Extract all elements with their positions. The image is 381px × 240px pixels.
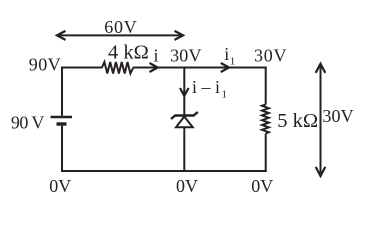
svg-text:30V: 30V bbox=[254, 45, 287, 65]
wire left lower segment bbox=[61, 126, 63, 172]
svg-text:1: 1 bbox=[230, 56, 236, 68]
zener diode D1 triangle (anode, pointing up) bbox=[176, 117, 193, 128]
svg-text:60V: 60V bbox=[104, 17, 136, 37]
svg-text:i: i bbox=[224, 44, 229, 64]
wire middle upper segment (30V node to zener) bbox=[183, 67, 185, 116]
current arrow i1 (arrowhead on top wire) bbox=[221, 63, 229, 72]
current arrow i (arrowhead on top wire) bbox=[150, 63, 158, 72]
wire left upper segment bbox=[61, 67, 63, 116]
svg-text:30V: 30V bbox=[170, 45, 201, 65]
svg-text:i – i: i – i bbox=[192, 77, 220, 97]
svg-text:1: 1 bbox=[222, 89, 228, 101]
svg-text:0V: 0V bbox=[49, 176, 71, 196]
svg-text:90V: 90V bbox=[29, 55, 61, 75]
resistor R1 4 kOhm (horizontal zigzag) bbox=[102, 62, 133, 74]
wire right lower segment (R2 to 0V net) bbox=[265, 134, 267, 173]
resistor R2 5 kOhm (vertical zigzag) bbox=[262, 105, 269, 134]
wire top-right segment (R1 to 30V right node) bbox=[133, 67, 267, 69]
wire bottom horizontal (0V net) bbox=[61, 170, 267, 172]
svg-text:0V: 0V bbox=[176, 176, 198, 196]
wire middle lower segment (zener to 0V net) bbox=[183, 128, 185, 173]
svg-text:4 kΩ: 4 kΩ bbox=[108, 41, 149, 63]
voltage annotation arrow 60V (double-headed) bbox=[57, 31, 183, 40]
svg-text:90 V: 90 V bbox=[11, 112, 45, 132]
svg-text:30V: 30V bbox=[322, 106, 353, 126]
battery B1 short plate (-) bbox=[57, 122, 67, 125]
voltage annotation arrow 30V across R2 (vertical double-headed) bbox=[316, 64, 326, 176]
svg-text:i: i bbox=[153, 45, 158, 65]
wire right upper segment (30V node to R2) bbox=[265, 67, 267, 105]
wire top-left segment (90V node to R1) bbox=[62, 67, 103, 69]
svg-text:5 kΩ: 5 kΩ bbox=[277, 110, 318, 132]
battery B1 long plate (+) bbox=[51, 116, 73, 118]
current arrow i - i1 (arrowhead pointing down on middle wire) bbox=[180, 88, 189, 96]
zener diode D1 cathode bar with bent tails bbox=[171, 112, 198, 119]
svg-text:0V: 0V bbox=[251, 176, 273, 196]
